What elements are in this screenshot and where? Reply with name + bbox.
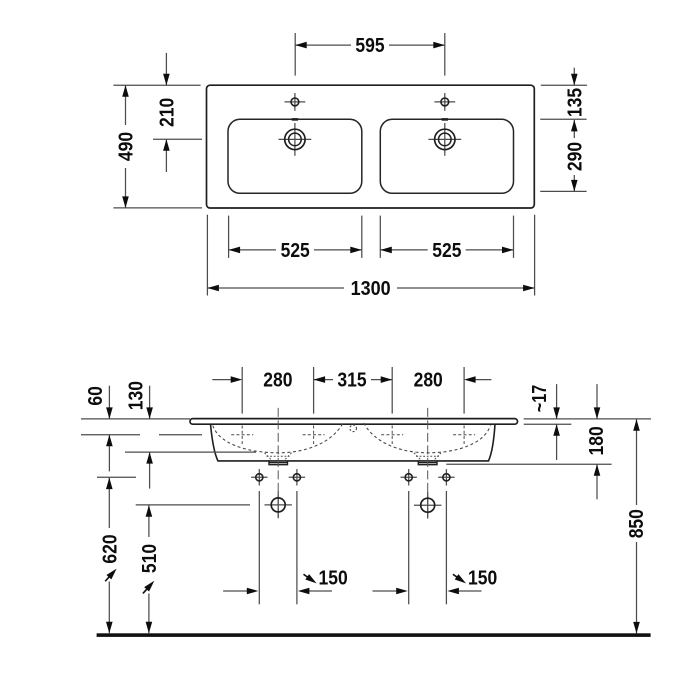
svg-text:180: 180	[586, 426, 608, 455]
svg-text:135: 135	[565, 88, 587, 117]
dimension 280 right (front top)	[414, 367, 492, 414]
dimension 1300	[207, 215, 534, 300]
dimension 490	[113, 85, 202, 208]
hidden overflow hole (front centre)	[350, 425, 357, 432]
left tap hole	[285, 93, 306, 111]
svg-text:60: 60	[85, 386, 107, 406]
dimension 315 (front top)	[314, 367, 393, 414]
left extension lines (front)	[81, 418, 190, 420]
svg-text:595: 595	[355, 35, 384, 57]
dimension 180	[586, 384, 608, 499]
dimension 595	[295, 33, 445, 76]
faucet cross marks (front)	[231, 426, 475, 445]
dimension 130	[126, 381, 153, 489]
right drain funnel hidden	[414, 453, 441, 461]
slab / rim (front)	[190, 419, 518, 425]
left drain funnel hidden	[265, 453, 292, 461]
right overflow slot tick	[442, 118, 448, 121]
left drain fitting	[269, 461, 288, 465]
svg-text:210: 210	[157, 98, 179, 127]
dimension 850	[626, 419, 648, 633]
right drain fitting	[418, 461, 437, 465]
svg-text:150: 150	[319, 568, 348, 590]
right extension lines (front)	[524, 418, 651, 420]
svg-text:290: 290	[565, 142, 587, 171]
dimension 510	[139, 505, 161, 633]
dimension 210	[153, 53, 202, 172]
dimension 150 left	[223, 568, 348, 595]
dimension 150 right	[373, 568, 498, 595]
right basin inner rect	[380, 119, 513, 193]
svg-text:510: 510	[139, 544, 161, 573]
svg-text:280: 280	[414, 370, 443, 392]
siphon outlets (front)	[265, 492, 442, 519]
dimension 620	[100, 478, 122, 634]
left basin inner rect	[228, 119, 362, 193]
left drain hole (plan)	[279, 123, 312, 156]
dimension 135	[565, 68, 587, 117]
150 dimension extension lines	[258, 491, 260, 604]
svg-text:130: 130	[126, 381, 148, 410]
dimension 525 right	[380, 216, 513, 262]
svg-text:~17: ~17	[529, 385, 551, 413]
washbasin outer rect (plan)	[207, 85, 535, 208]
right side extension lines (plan)	[541, 84, 587, 86]
right centreline	[427, 408, 429, 519]
right tap hole	[434, 93, 455, 111]
dimension ~17	[529, 384, 560, 460]
fixing holes (front)	[251, 469, 455, 485]
left overflow slot tick	[292, 118, 298, 121]
dimension 525 left	[229, 216, 362, 262]
left bowl hidden contour	[213, 423, 343, 453]
floor line	[97, 633, 651, 637]
svg-text:850: 850	[626, 509, 648, 538]
svg-text:525: 525	[432, 240, 461, 262]
svg-text:490: 490	[116, 132, 138, 161]
right bowl hidden contour	[364, 423, 491, 453]
dimension 290	[565, 120, 587, 191]
left centreline	[277, 408, 279, 519]
dimension 60	[85, 386, 113, 472]
svg-text:315: 315	[337, 370, 366, 392]
svg-text:280: 280	[263, 370, 292, 392]
svg-text:1300: 1300	[351, 278, 391, 300]
right drain hole (plan)	[428, 123, 461, 156]
body outline (front)	[211, 424, 496, 461]
svg-text:620: 620	[100, 534, 122, 563]
svg-text:525: 525	[281, 240, 310, 262]
svg-text:150: 150	[468, 568, 497, 590]
dimension 280 left (front top)	[212, 367, 313, 414]
